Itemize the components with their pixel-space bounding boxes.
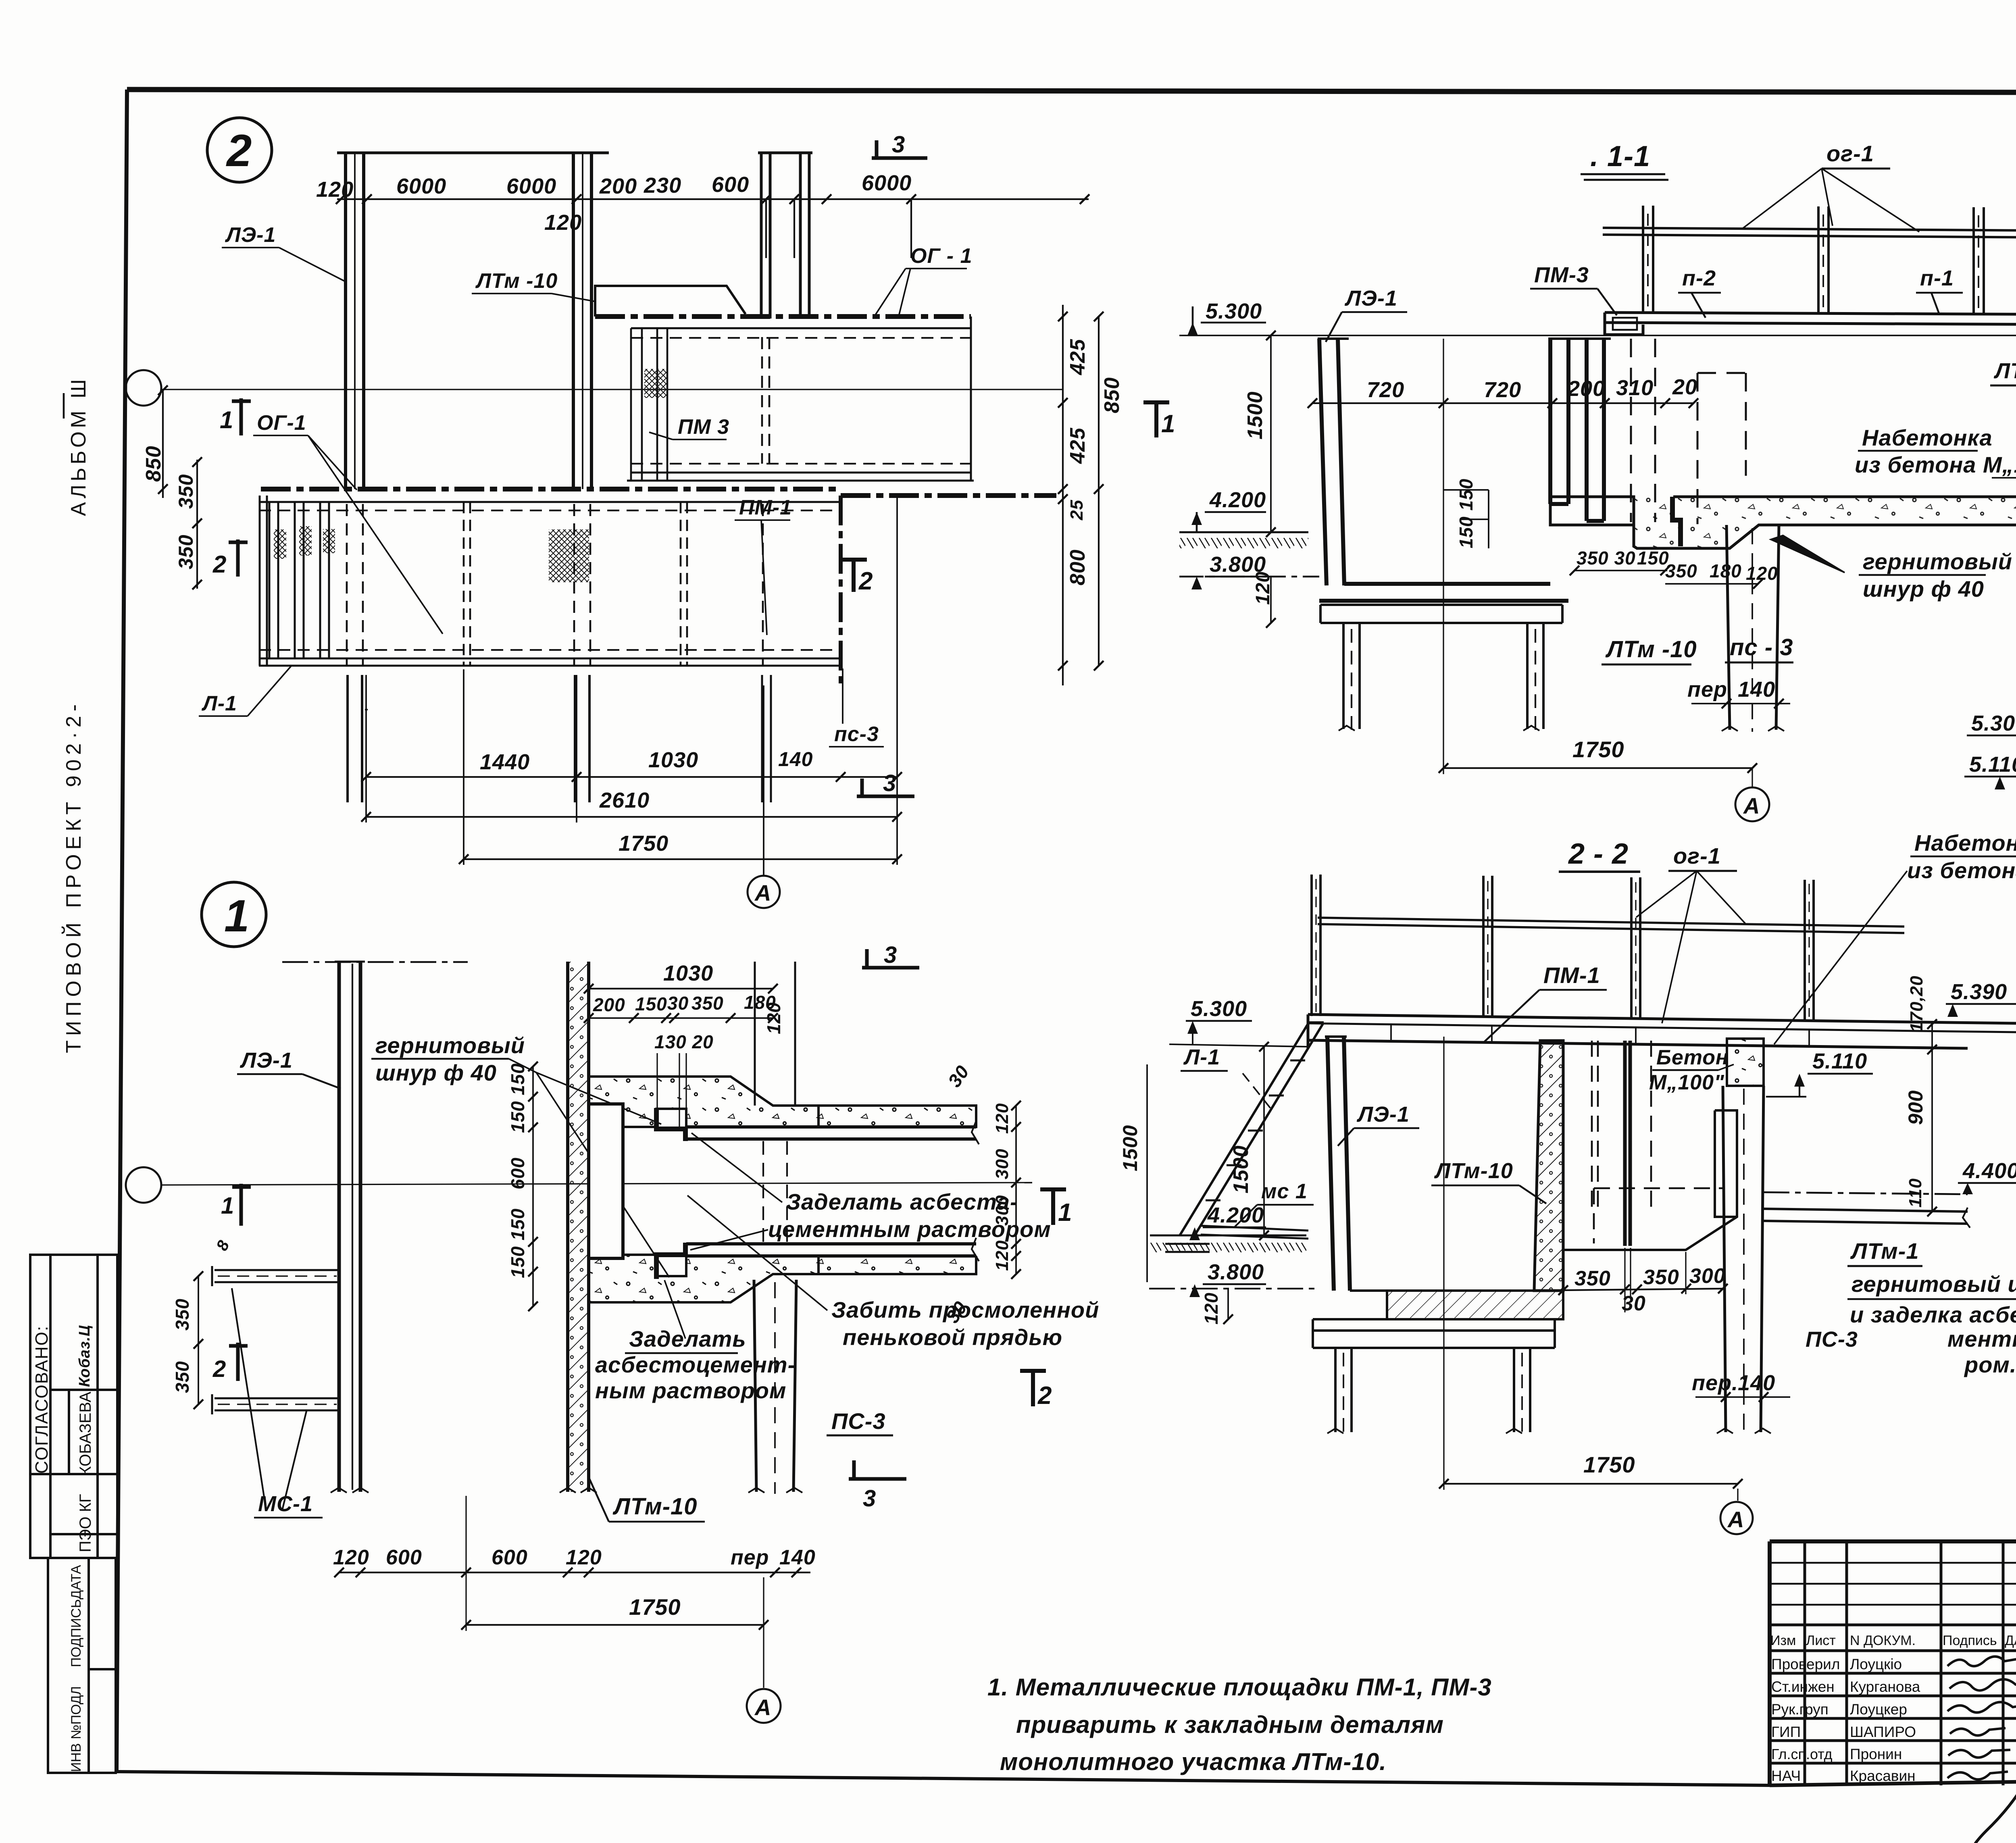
left axis circle and line — [126, 370, 161, 406]
signatures scribbles — [1947, 1656, 2016, 1843]
svg-text:цементным раствором: цементным раствором — [768, 1216, 1051, 1242]
svg-text:ЛТм-10: ЛТм-10 — [612, 1493, 698, 1520]
svg-text:110: 110 — [1906, 1178, 1925, 1208]
svg-text:150 150: 150 150 — [507, 1063, 528, 1133]
svg-text:120: 120 — [316, 177, 354, 202]
pier ps-3 — [1727, 525, 1779, 730]
dims 350 350 300 30 — [1574, 1264, 1726, 1315]
svg-text:ЛЭ-1: ЛЭ-1 — [1356, 1102, 1410, 1127]
svg-text:Гл.сп.отд: Гл.сп.отд — [1771, 1746, 1833, 1762]
svg-text:СОГЛАСОВАНО:: СОГЛАСОВАНО: — [32, 1325, 52, 1474]
svg-text:350: 350 — [1574, 1267, 1611, 1290]
svg-text:пер: пер — [1687, 677, 1727, 702]
svg-text:1: 1 — [1161, 410, 1175, 438]
dims under floor — [1577, 566, 1754, 579]
top rail — [1318, 918, 1904, 933]
svg-text:120: 120 — [992, 1103, 1012, 1134]
svg-text:М„100": М„100" — [1649, 1071, 1724, 1094]
svg-text:20: 20 — [1672, 375, 1697, 399]
svg-text:600: 600 — [386, 1546, 422, 1569]
seal zigzag top/bottom — [656, 1108, 685, 1141]
svg-text:приварить к закладным детал: приварить к закладным деталям — [1016, 1711, 1444, 1738]
svg-text:Л-1: Л-1 — [1183, 1045, 1220, 1069]
svg-text:120: 120 — [1201, 1292, 1222, 1324]
svg-text:ЛЭ-1: ЛЭ-1 — [1344, 286, 1397, 310]
svg-text:5.300: 5.300 — [1206, 299, 1262, 323]
walkway slab — [1605, 312, 2016, 335]
PM-3 platform in upper channel — [631, 328, 667, 481]
svg-text:Забить просмоленной: Забить просмоленной — [831, 1297, 1099, 1322]
svg-text:600: 600 — [507, 1157, 528, 1189]
interior dims — [1312, 402, 1693, 404]
svg-text:1750: 1750 — [629, 1594, 681, 1620]
ladder rungs left part — [269, 502, 329, 658]
svg-text:5.110: 5.110 — [1969, 752, 2016, 777]
svg-text:180: 180 — [1710, 560, 1742, 581]
svg-text:пер.: пер. — [1692, 1371, 1738, 1395]
svg-text:и заделка асбестоце-: и заделка асбестоце- — [1850, 1302, 2016, 1327]
svg-text:350: 350 — [172, 1361, 193, 1393]
svg-text:425: 425 — [1066, 339, 1089, 375]
svg-text:900: 900 — [1904, 1090, 1927, 1125]
LTm-10 wall strip (hatched) — [568, 962, 589, 1492]
svg-text:ЛТм -10: ЛТм -10 — [475, 269, 558, 293]
svg-text:300: 300 — [1689, 1264, 1726, 1288]
wall LE-1 (left) — [339, 962, 360, 1492]
left margin: inv strip — [48, 1558, 116, 1773]
svg-text:1500: 1500 — [1243, 391, 1267, 439]
svg-text:Пронин: Пронин — [1850, 1746, 1902, 1762]
svg-text:350: 350 — [691, 993, 724, 1014]
svg-text:140: 140 — [778, 748, 813, 771]
svg-text:ром.: ром. — [1964, 1352, 2016, 1377]
svg-text:пер: пер — [731, 1546, 769, 1569]
svg-text:120: 120 — [763, 1002, 784, 1034]
svg-text:Л-1: Л-1 — [201, 692, 237, 715]
svg-text:120: 120 — [544, 210, 582, 235]
svg-text:гернитовый: гернитовый — [375, 1033, 525, 1058]
svg-text:ПМ 3: ПМ 3 — [678, 415, 729, 439]
posts — [1312, 875, 1814, 1021]
top dimension line — [337, 199, 1089, 258]
right slab at 4.400 — [1764, 1209, 1968, 1224]
svg-text:3: 3 — [892, 131, 905, 158]
svg-text:30: 30 — [944, 1061, 973, 1091]
svg-text:ПС-3: ПС-3 — [831, 1408, 886, 1434]
lower channel walls — [259, 496, 841, 666]
MS-1 stubs — [212, 1266, 339, 1414]
svg-text:310: 310 — [1616, 376, 1654, 400]
svg-text:ЛТм-1: ЛТм-1 — [1850, 1238, 1919, 1264]
upper channel walls — [627, 317, 974, 481]
hidden dashed box — [1594, 1188, 1723, 1243]
svg-text:НАЧ: НАЧ — [1771, 1768, 1801, 1784]
svg-text:350: 350 — [1643, 1266, 1679, 1289]
svg-text:300: 300 — [992, 1149, 1012, 1179]
svg-text:ЛЭ-1: ЛЭ-1 — [225, 223, 276, 247]
pier — [1723, 1086, 1764, 1432]
svg-text:ОГ-1: ОГ-1 — [257, 411, 306, 435]
interior axis — [1443, 1037, 1444, 1435]
svg-text:ИНВ №ПОДЛ: ИНВ №ПОДЛ — [69, 1686, 84, 1772]
node circle 2 — [207, 118, 272, 182]
svg-text:мс 1: мс 1 — [1261, 1180, 1308, 1203]
svg-text:Заделать асбеста-: Заделать асбеста- — [786, 1189, 1018, 1214]
svg-text:Бетон: Бетон — [1656, 1046, 1729, 1069]
dashed verticals and dark strip — [1592, 1041, 1598, 1214]
svg-text:150: 150 — [635, 993, 667, 1014]
svg-text:1030: 1030 — [648, 748, 698, 772]
svg-text:ным раствором: ным раствором — [595, 1378, 786, 1403]
small weld ticks on slab — [1391, 1025, 1809, 1046]
svg-text:шнур ф 40: шнур ф 40 — [1863, 576, 1984, 602]
svg-text:4.200: 4.200 — [1209, 488, 1266, 512]
labels — [201, 223, 973, 746]
lower concrete band — [589, 1255, 818, 1302]
inlet funnel — [1563, 1110, 1737, 1250]
svg-text:2: 2 — [1037, 1382, 1052, 1410]
svg-text:130 20: 130 20 — [654, 1031, 714, 1052]
svg-text:600: 600 — [712, 173, 749, 197]
svg-text:600: 600 — [492, 1546, 528, 1569]
svg-text:1: 1 — [220, 406, 233, 433]
svg-text:ПМ-1: ПМ-1 — [739, 496, 792, 519]
partitions dashed — [464, 502, 687, 666]
svg-text:5.110: 5.110 — [1812, 1049, 1867, 1073]
svg-text:ог-1: ог-1 — [1826, 141, 1874, 166]
svg-text:150 150: 150 150 — [1456, 479, 1477, 548]
legs — [1343, 623, 1543, 729]
svg-text:Набетонка: Набетонка — [1862, 425, 1993, 450]
top wall edge line — [337, 152, 812, 154]
svg-text:140: 140 — [1738, 677, 1775, 702]
svg-text:350 30: 350 30 — [1577, 548, 1636, 569]
right dim columns — [1062, 305, 1064, 685]
top dashdot — [282, 961, 468, 963]
svg-text:гернитовый: гернитовый — [1863, 549, 2012, 574]
svg-text:ЛТм-10: ЛТм-10 — [1434, 1159, 1513, 1183]
svg-text:ЛЭ-1: ЛЭ-1 — [240, 1048, 293, 1072]
svg-text:1030: 1030 — [663, 961, 713, 985]
concrete block on top — [1727, 1039, 1764, 1086]
T1 T2 markers — [1040, 1189, 1066, 1225]
svg-text:ЛТм-1: ЛТм-1 — [1993, 359, 2016, 383]
svg-text:3: 3 — [883, 770, 896, 796]
sleeve rect — [589, 1104, 623, 1258]
svg-text:Изм: Изм — [1770, 1633, 1796, 1648]
stamp header texts — [1770, 1633, 2016, 1784]
svg-text:ГИП: ГИП — [1771, 1724, 1801, 1740]
upper channel ltm10 step outline — [595, 286, 746, 317]
svg-text:Набетонка: Набетонка — [1914, 830, 2016, 856]
center axis — [1443, 339, 1444, 605]
svg-text:170,20: 170,20 — [1907, 975, 1926, 1032]
svg-text:ОГ - 1: ОГ - 1 — [910, 244, 973, 268]
svg-text:120: 120 — [333, 1546, 369, 1569]
svg-text:ПМ-1: ПМ-1 — [1543, 962, 1600, 988]
svg-text:1: 1 — [224, 891, 250, 941]
svg-text:850: 850 — [1100, 377, 1124, 413]
seal zigzag — [1672, 497, 1681, 546]
hidden walls dashed — [1443, 339, 1746, 524]
svg-text:Курганова: Курганова — [1850, 1678, 1920, 1695]
upper channel: OG-1 bold rail line — [595, 314, 971, 319]
svg-text:А: А — [1727, 1507, 1744, 1532]
svg-text:120: 120 — [566, 1546, 602, 1569]
platform slab — [1308, 1014, 2016, 1048]
monolithic floor band with step — [1550, 497, 2016, 548]
ms-1 stub at ladder base — [1201, 1226, 1308, 1239]
svg-text:А: А — [754, 1695, 771, 1720]
svg-text:2: 2 — [212, 551, 227, 578]
svg-text:1750: 1750 — [619, 831, 669, 856]
svg-text:1: 1 — [1058, 1199, 1072, 1227]
svg-text:720: 720 — [1484, 378, 1521, 402]
bottom extension lines — [365, 496, 897, 876]
tank walls — [1319, 339, 1604, 601]
svg-text:120: 120 — [992, 1240, 1012, 1271]
svg-text:3: 3 — [884, 942, 897, 968]
3 markers — [872, 140, 927, 158]
svg-text:. 1-1: . 1-1 — [1590, 140, 1650, 173]
svg-text:ТИПОВОЙ ПРОЕКТ 902·2-: ТИПОВОЙ ПРОЕКТ 902·2- — [62, 700, 85, 1053]
svg-text:пс - 3: пс - 3 — [1730, 634, 1793, 660]
level line 5.300 — [1179, 335, 2016, 336]
svg-text:из бетона М„100": из бетона М„100" — [1907, 858, 2016, 883]
svg-text:Лист: Лист — [1806, 1633, 1836, 1648]
wall W3 pair — [761, 153, 809, 802]
svg-text:140: 140 — [779, 1546, 816, 1569]
svg-text:Ст.инжен: Ст.инжен — [1771, 1678, 1835, 1695]
svg-text:25: 25 — [1067, 500, 1087, 521]
pipe bottom — [686, 1244, 976, 1256]
base — [1313, 1319, 1555, 1348]
svg-text:850: 850 — [142, 446, 165, 482]
svg-text:п-1: п-1 — [1920, 266, 1954, 290]
svg-text:1500: 1500 — [1119, 1125, 1141, 1171]
svg-text:4.200: 4.200 — [1207, 1203, 1264, 1227]
ground hatch — [1150, 1235, 1306, 1237]
svg-text:200: 200 — [593, 994, 625, 1015]
svg-text:800: 800 — [1066, 549, 1089, 585]
svg-text:пс-3: пс-3 — [834, 723, 879, 746]
svg-text:асбестоцемент-: асбестоцемент- — [595, 1352, 796, 1377]
svg-text:200: 200 — [599, 174, 637, 198]
svg-text:монолитного участка ЛТм-10.: монолитного участка ЛТм-10. — [1000, 1748, 1387, 1775]
svg-text:6000: 6000 — [862, 171, 912, 195]
tank walls — [1327, 1037, 1350, 1291]
svg-text:5.300: 5.300 — [1971, 711, 2016, 735]
legs — [1335, 1348, 1530, 1432]
svg-text:6000: 6000 — [396, 174, 446, 198]
pier ps-3 — [754, 1280, 796, 1492]
svg-text:ПЭО КГ: ПЭО КГ — [77, 1494, 94, 1552]
svg-text:Кобаз.Ц: Кобаз.Ц — [76, 1325, 93, 1387]
ladder L-1 — [1180, 1023, 1324, 1235]
svg-text:150 150: 150 150 — [507, 1208, 528, 1278]
svg-text:N ДОКУМ.: N ДОКУМ. — [1850, 1633, 1916, 1648]
svg-text:2 - 2: 2 - 2 — [1568, 838, 1629, 870]
svg-text:ментным раство-: ментным раство- — [1947, 1326, 2016, 1352]
node circle 1 — [202, 882, 266, 947]
svg-text:150: 150 — [1637, 548, 1669, 569]
svg-text:ЛТм -10: ЛТм -10 — [1605, 636, 1697, 662]
svg-text:140: 140 — [1738, 1371, 1775, 1395]
svg-text:Проверил: Проверил — [1771, 1656, 1840, 1672]
right hatched wall LTm-10 — [1534, 1041, 1563, 1291]
tank floor — [1387, 1291, 1563, 1319]
svg-text:1750: 1750 — [1583, 1452, 1635, 1477]
svg-text:5.300: 5.300 — [1191, 997, 1247, 1021]
base slab — [1320, 605, 1562, 623]
pipe break at right — [972, 1121, 979, 1261]
bold line B top of lower channel — [261, 487, 841, 491]
svg-text:ДАТА: ДАТА — [2005, 1633, 2016, 1648]
svg-text:1. Металлические площадки ПМ: 1. Металлические площадки ПМ-1, ПМ-3 — [987, 1674, 1492, 1701]
svg-text:30: 30 — [667, 993, 689, 1014]
svg-text:425: 425 — [1066, 427, 1089, 464]
pipe top — [686, 1127, 976, 1139]
svg-text:1750: 1750 — [1572, 737, 1624, 762]
3 markers — [862, 949, 919, 968]
upper concrete band with step — [589, 1077, 818, 1131]
svg-text:ПС-3: ПС-3 — [1806, 1327, 1858, 1352]
svg-text:А: А — [1743, 793, 1760, 818]
bottom dims — [366, 776, 897, 778]
railing — [1603, 206, 2016, 314]
svg-text:350: 350 — [175, 535, 197, 569]
svg-text:350: 350 — [1665, 560, 1697, 581]
svg-text:ПОДПИСЬДАТА: ПОДПИСЬДАТА — [69, 1565, 84, 1667]
ground at left — [1179, 531, 1308, 533]
svg-text:ПМ-3: ПМ-3 — [1534, 263, 1589, 287]
svg-text:гернитовый шнур: гернитовый шнур — [1851, 1271, 2016, 1297]
svg-text:5.390: 5.390 — [1951, 980, 2007, 1004]
svg-text:2: 2 — [212, 1356, 226, 1382]
svg-text:из бетона М„100": из бетона М„100" — [1855, 452, 2016, 477]
svg-text:А: А — [754, 880, 771, 906]
svg-text:1: 1 — [221, 1193, 234, 1219]
left margin: approval table — [30, 1255, 117, 1558]
svg-text:АЛЬБОМ Ш: АЛЬБОМ Ш — [67, 376, 90, 516]
svg-text:720: 720 — [1367, 378, 1404, 402]
svg-text:3.800: 3.800 — [1208, 1260, 1264, 1284]
bottom dims — [333, 1546, 816, 1569]
axis circle + line — [126, 1167, 161, 1203]
svg-text:3: 3 — [863, 1485, 876, 1512]
svg-text:1440: 1440 — [480, 750, 530, 774]
svg-text:4.400: 4.400 — [1962, 1159, 2016, 1183]
svg-text:2610: 2610 — [599, 788, 650, 812]
svg-text:350: 350 — [172, 1298, 193, 1331]
svg-text:ог-1: ог-1 — [1673, 843, 1721, 868]
svg-text:6000: 6000 — [506, 174, 556, 198]
svg-text:ШАПИРО: ШАПИРО — [1850, 1724, 1916, 1740]
svg-text:Рук.груп: Рук.груп — [1771, 1701, 1829, 1718]
svg-text:Заделать: Заделать — [629, 1326, 746, 1352]
svg-text:Лоуцкio: Лоуцкio — [1850, 1656, 1902, 1672]
svg-text:230: 230 — [644, 173, 681, 198]
svg-text:КОБАЗЕВА: КОБАЗЕВА — [77, 1391, 94, 1476]
svg-text:шнур ф 40: шнур ф 40 — [375, 1060, 497, 1085]
T1 T2 markers — [1143, 402, 1169, 437]
svg-text:2: 2 — [858, 567, 873, 595]
svg-text:350: 350 — [175, 474, 197, 509]
svg-text:Подпись: Подпись — [1943, 1633, 1997, 1648]
svg-text:8: 8 — [213, 1237, 233, 1254]
svg-text:1500: 1500 — [1229, 1145, 1253, 1193]
svg-text:Лоуцкер: Лоуцкер — [1850, 1701, 1907, 1718]
wall W1 — [346, 153, 364, 802]
svg-text:2: 2 — [226, 125, 252, 176]
svg-text:пеньковой прядью: пеньковой прядью — [843, 1324, 1062, 1350]
svg-text:Красавин: Красавин — [1850, 1768, 1916, 1784]
svg-text:200: 200 — [1567, 377, 1605, 401]
wall W2 — [573, 153, 591, 802]
svg-text:п-2: п-2 — [1682, 266, 1716, 290]
